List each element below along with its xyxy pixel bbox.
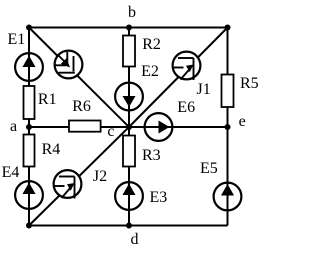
resistor R1: [24, 86, 35, 119]
source E6: [145, 113, 173, 141]
source E4: [15, 181, 43, 209]
wire diagonal bottomleft to c: [29, 127, 129, 226]
label E5: [200, 161, 218, 177]
label e: [239, 114, 246, 130]
label E2: [141, 64, 159, 80]
wire diagonal topleft to c: [29, 28, 129, 128]
wire left branch E1 R1 R4 E4: [28, 28, 30, 226]
node top-left corner: [26, 25, 32, 31]
label R3: [142, 148, 161, 164]
label R5: [240, 76, 259, 92]
label E6: [177, 100, 195, 116]
label J1: [197, 82, 211, 98]
resistor R3: [123, 136, 135, 167]
transistor J3 top-left: [55, 51, 83, 79]
resistor R2: [123, 36, 135, 67]
source E5: [214, 183, 242, 211]
source E1: [15, 53, 43, 81]
resistor R5: [222, 75, 234, 108]
transistor J2: [53, 170, 81, 198]
source E3: [115, 182, 143, 210]
label E1: [8, 32, 26, 48]
wire center horizontal a-c-e: [29, 126, 228, 128]
label d: [131, 232, 139, 248]
wire center vertical b-c-d: [128, 28, 130, 226]
transistor J1: [172, 52, 200, 80]
label R1: [38, 92, 57, 108]
node a: [26, 124, 32, 130]
node d: [126, 223, 132, 229]
label R6: [72, 99, 91, 115]
label E3: [150, 190, 168, 206]
node b: [126, 25, 132, 31]
label E4: [2, 165, 20, 181]
node c: [126, 124, 132, 130]
label a: [10, 119, 17, 135]
resistor R6: [69, 121, 101, 132]
source E2: [115, 83, 143, 111]
wire diagonal c to topright: [129, 28, 228, 128]
label R4: [42, 142, 61, 158]
label c: [107, 124, 114, 140]
node e: [225, 124, 231, 130]
node top-right corner: [225, 25, 231, 31]
wire right branch R5 E5: [227, 28, 229, 226]
node bottom-left corner: [26, 223, 32, 229]
label b: [128, 5, 136, 21]
resistor R4: [24, 135, 35, 167]
wire top edge a-b-topright: [29, 27, 228, 29]
wire bottom edge: [29, 225, 228, 227]
label J2: [93, 169, 107, 185]
label R2: [142, 37, 161, 53]
